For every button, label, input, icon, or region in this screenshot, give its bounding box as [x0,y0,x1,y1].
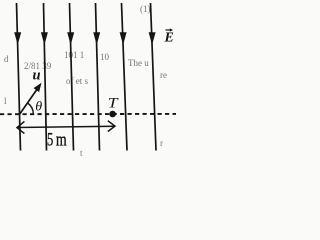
svg-text:10: 10 [100,52,110,62]
field line 1 arrowhead [14,32,21,45]
vector u arrowhead [34,83,42,92]
field line 1 [17,3,21,151]
svg-text:d: d [4,54,9,64]
field line 2 [44,3,47,151]
measurement arrow shaft (5 m span) [17,126,115,127]
field line 6 arrowhead [149,32,156,45]
vector u shaft [20,86,39,114]
field line 3 [70,3,74,151]
ghost bleed-through text top left [4,50,110,71]
svg-text:r: r [160,138,163,148]
field line 4 arrowhead [93,32,100,45]
svg-text:5: 5 [47,129,53,150]
field line 5 [122,3,128,151]
field line 6 [151,3,157,151]
field line 3 arrowhead [67,32,74,45]
dashed horizontal line [0,113,176,115]
svg-text:m: m [56,129,67,150]
ghost bleed-through text right side [4,4,167,158]
point T dot [109,111,116,118]
svg-text:101 1: 101 1 [64,50,84,60]
svg-text:θ: θ [35,100,42,115]
measurement left arrowhead [17,121,24,133]
svg-text:(1): (1) [140,4,151,14]
svg-text:The u: The u [128,58,149,68]
field line 5 arrowhead [120,32,127,45]
svg-text:re: re [160,70,167,80]
label E (field) with vector arrow [164,28,174,45]
svg-text:of et s: of et s [66,76,88,86]
angle arc theta [28,103,34,114]
field line 2 arrowhead [41,32,48,45]
measurement right arrowhead [108,121,115,132]
svg-text:u: u [33,68,41,84]
field line 4 [96,3,100,151]
svg-text:E: E [164,31,174,46]
